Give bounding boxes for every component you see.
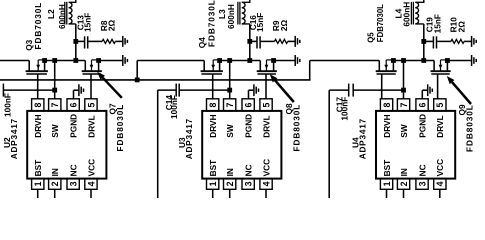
svg-text:ADP3417: ADP3417 [9, 118, 19, 159]
svg-text:1: 1 [382, 181, 392, 186]
svg-text:4: 4 [86, 181, 96, 186]
svg-text:VCC: VCC [261, 159, 271, 177]
svg-text:7: 7 [50, 103, 60, 108]
svg-text:1: 1 [33, 181, 43, 186]
svg-text:5: 5 [261, 103, 271, 108]
svg-text:8: 8 [382, 103, 392, 108]
svg-text:PGND: PGND [244, 114, 254, 138]
svg-text:NC: NC [417, 164, 427, 176]
svg-text:FDB7030L: FDB7030L [33, 2, 43, 50]
svg-text:2Ω: 2Ω [279, 19, 289, 31]
svg-text:2Ω: 2Ω [457, 21, 467, 33]
svg-text:3: 3 [417, 181, 427, 186]
svg-text:Q5: Q5 [367, 32, 376, 43]
svg-text:SW: SW [50, 124, 60, 138]
svg-text:6: 6 [417, 103, 427, 108]
svg-text:4: 4 [261, 181, 271, 186]
svg-text:IN: IN [225, 168, 235, 176]
svg-text:DRVH: DRVH [382, 114, 392, 137]
svg-text:2Ω: 2Ω [107, 19, 117, 31]
svg-text:DRVL: DRVL [86, 115, 96, 137]
svg-text:3: 3 [244, 181, 254, 186]
svg-text:L2: L2 [46, 9, 56, 19]
svg-text:SW: SW [399, 124, 409, 138]
svg-text:6: 6 [244, 103, 254, 108]
svg-text:15nF: 15nF [433, 14, 443, 33]
svg-text:BST: BST [208, 160, 218, 177]
svg-text:VCC: VCC [435, 159, 445, 177]
svg-text:DRVH: DRVH [33, 114, 43, 137]
svg-text:2: 2 [50, 181, 60, 186]
svg-text:DRVH: DRVH [208, 114, 218, 137]
svg-text:8: 8 [208, 103, 218, 108]
svg-text:SW: SW [225, 124, 235, 138]
svg-text:NC: NC [69, 164, 79, 176]
svg-text:BST: BST [382, 160, 392, 177]
svg-text:IN: IN [399, 168, 409, 176]
svg-text:FDB8030L: FDB8030L [115, 104, 125, 152]
svg-text:2: 2 [399, 181, 409, 186]
svg-text:FDB8030L: FDB8030L [464, 104, 474, 152]
svg-text:DRVL: DRVL [261, 115, 271, 137]
svg-text:IN: IN [50, 168, 60, 176]
svg-text:4: 4 [435, 181, 445, 186]
svg-text:7: 7 [399, 103, 409, 108]
svg-text:600nH: 600nH [401, 2, 411, 27]
svg-text:15nF: 15nF [83, 13, 93, 32]
svg-text:5: 5 [86, 103, 96, 108]
svg-text:600nH: 600nH [57, 4, 67, 29]
svg-text:ADP3417: ADP3417 [358, 118, 368, 159]
svg-text:PGND: PGND [69, 114, 79, 138]
svg-text:PGND: PGND [417, 114, 427, 138]
svg-text:DRVL: DRVL [435, 115, 445, 137]
svg-text:FDB7030L: FDB7030L [207, 0, 217, 47]
svg-text:NC: NC [244, 164, 254, 176]
svg-text:2: 2 [225, 181, 235, 186]
svg-text:15nF: 15nF [255, 13, 265, 32]
svg-text:Q4: Q4 [197, 37, 207, 48]
svg-text:100nF: 100nF [169, 95, 179, 119]
svg-text:600nH: 600nH [226, 4, 236, 29]
svg-text:ADP3417: ADP3417 [184, 118, 194, 159]
svg-text:5: 5 [435, 103, 445, 108]
svg-text:1: 1 [208, 181, 218, 186]
svg-text:VCC: VCC [86, 159, 96, 177]
svg-text:8: 8 [33, 103, 43, 108]
svg-text:FDB8030L: FDB8030L [292, 104, 302, 152]
svg-text:100nF: 100nF [3, 93, 13, 117]
svg-text:100nF: 100nF [340, 97, 350, 121]
svg-text:BST: BST [33, 160, 43, 177]
svg-text:7: 7 [225, 103, 235, 108]
svg-text:FDB7030L: FDB7030L [376, 4, 385, 42]
svg-text:3: 3 [69, 181, 79, 186]
svg-text:6: 6 [69, 103, 79, 108]
